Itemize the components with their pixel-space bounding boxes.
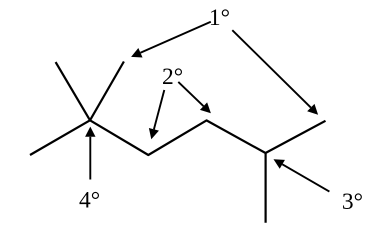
svg-text:3°: 3° [342,189,363,215]
svg-text:2°: 2° [162,64,183,90]
svg-text:1°: 1° [209,5,230,31]
svg-text:4°: 4° [79,188,100,214]
